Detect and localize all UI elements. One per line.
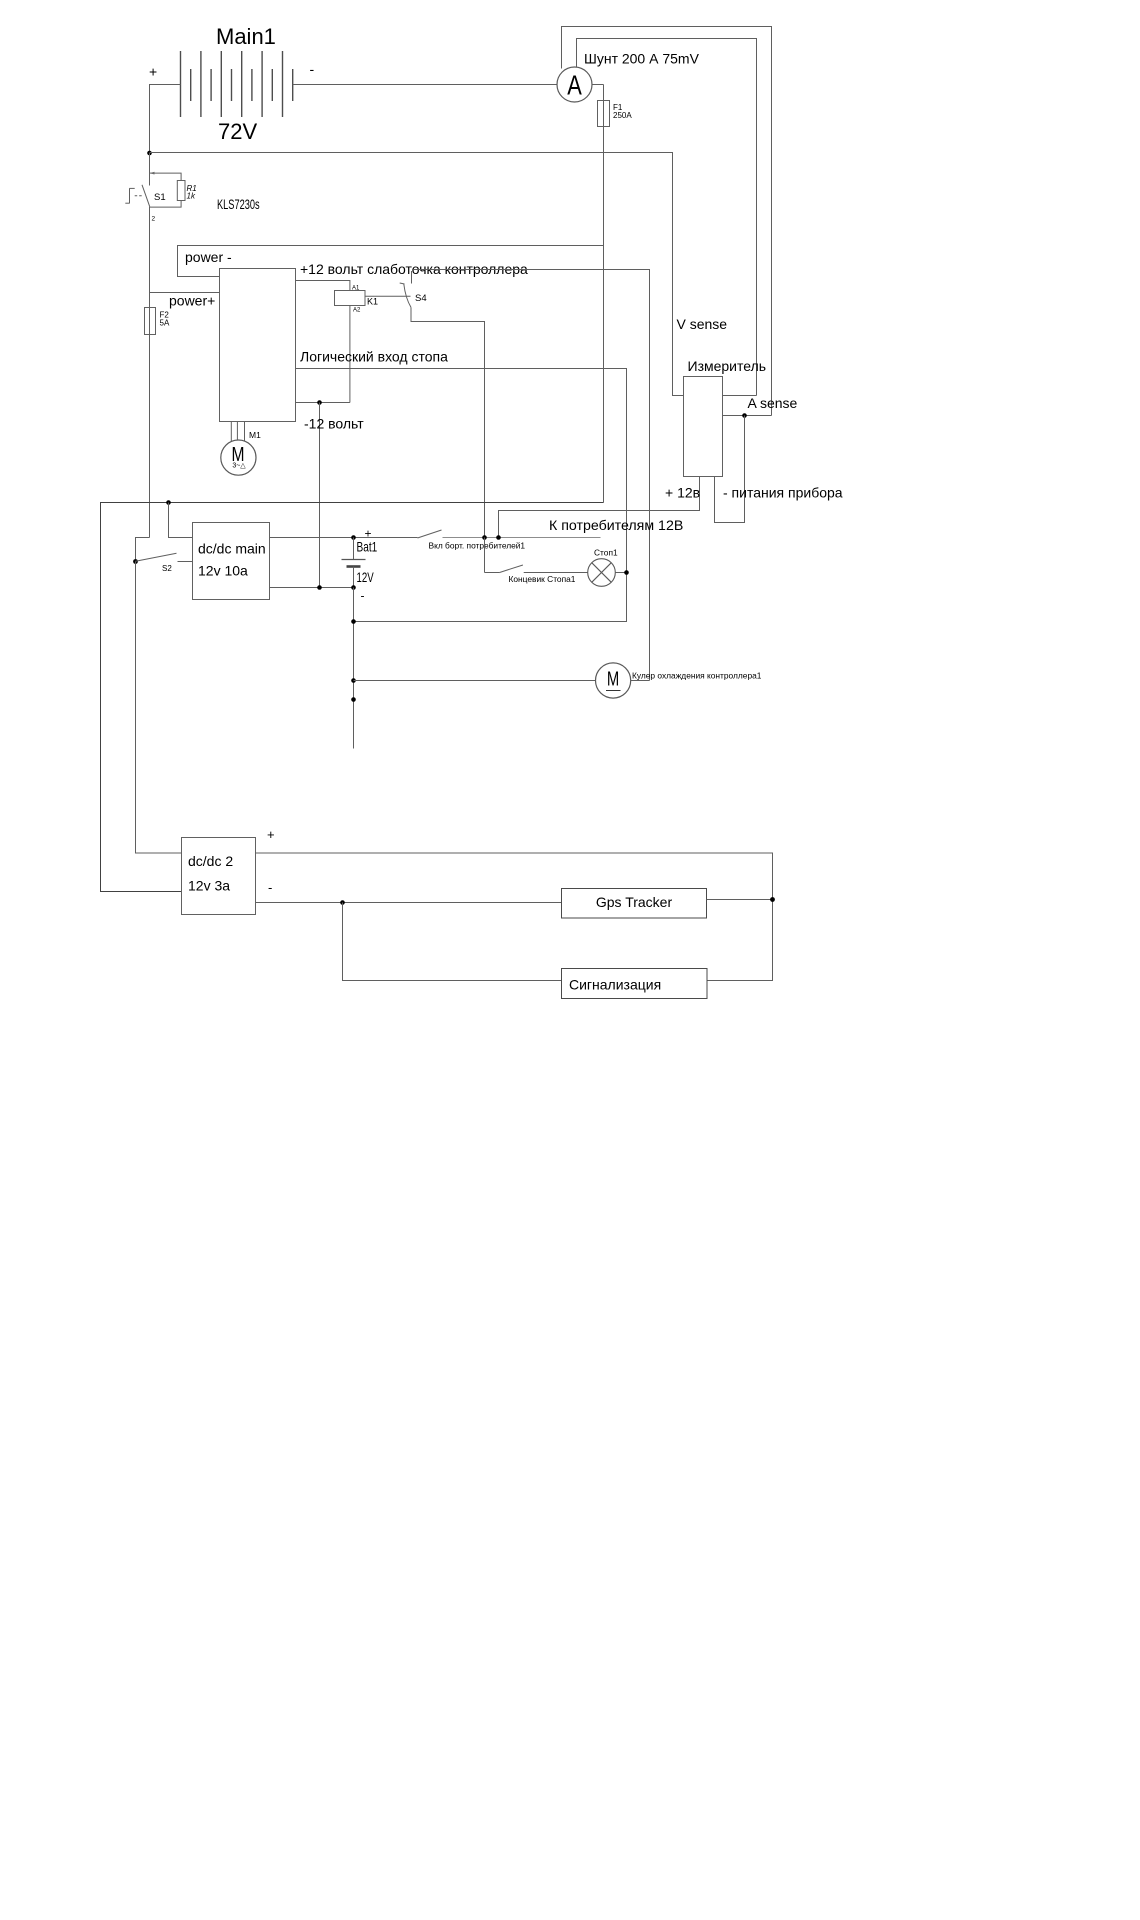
wire power minus xyxy=(178,246,604,277)
node Gps plus junction xyxy=(770,897,775,902)
wire meter V sense right xyxy=(723,395,757,397)
wire dc/dc main - output xyxy=(270,587,354,589)
wire lamp to logic line xyxy=(615,572,626,574)
wire cooler right lead xyxy=(631,680,650,682)
wire logic stop input xyxy=(296,369,627,622)
svg-text:Кулер охлаждения контроллера1: Кулер охлаждения контроллера1 xyxy=(632,671,762,681)
svg-text:12v 10a: 12v 10a xyxy=(198,563,248,579)
wire dc/dc main + output xyxy=(270,537,418,539)
wire meter A sense right xyxy=(723,415,772,417)
switch S2 xyxy=(136,553,193,561)
wire shunt sense right (V sense loop) xyxy=(577,39,757,396)
node S2 junction xyxy=(133,559,138,564)
svg-text:12v 3a: 12v 3a xyxy=(188,878,230,894)
svg-text:1k: 1k xyxy=(187,192,196,201)
svg-text:K1: K1 xyxy=(367,297,378,307)
svg-text:+: + xyxy=(149,64,157,80)
svg-text:Шунт 200 А 75mV: Шунт 200 А 75mV xyxy=(584,51,700,67)
svg-text:Концевик Стопа1: Концевик Стопа1 xyxy=(509,574,576,584)
wire cooler left lead xyxy=(354,680,596,682)
dc/dc 2 box xyxy=(182,838,256,915)
motor cooler xyxy=(596,663,631,698)
svg-text:Bat1: Bat1 xyxy=(357,539,378,555)
svg-text:-: - xyxy=(361,589,365,603)
svg-text:A sense: A sense xyxy=(748,395,798,411)
svg-text:-12 вольт: -12 вольт xyxy=(304,416,364,432)
svg-text:M1: M1 xyxy=(249,430,261,440)
svg-text:dc/dc 2: dc/dc 2 xyxy=(188,853,233,869)
svg-text:+ 12в: + 12в xyxy=(665,485,700,501)
lamp Стоп1 xyxy=(588,559,616,587)
wire shunt sense left (A sense loop) xyxy=(562,27,772,416)
wire -12 down to battery minus xyxy=(319,403,321,588)
wire power plus xyxy=(150,292,220,294)
fuse F2 xyxy=(145,308,156,335)
wire junction down to dc/dc main xyxy=(169,503,193,538)
svg-text:S1: S1 xyxy=(154,192,166,203)
wire F1 vertical down xyxy=(603,85,605,503)
switch S4 xyxy=(400,271,485,538)
wire battery plus lead xyxy=(150,85,181,154)
wire dc/dc 2 - output xyxy=(256,902,562,904)
node distribution junction xyxy=(166,500,171,505)
wire S1 line to S2 xyxy=(136,538,150,562)
svg-text:+: + xyxy=(267,827,275,842)
svg-text:S2: S2 xyxy=(162,564,172,573)
node Bat1 minus junction xyxy=(351,585,356,590)
svg-text:Main1: Main1 xyxy=(216,24,276,49)
wire minus supply of meter xyxy=(715,416,745,523)
svg-text:Логический вход стопа: Логический вход стопа xyxy=(300,349,448,365)
switch Вкл борт. потребителей1 xyxy=(418,530,601,538)
node alarm minus junction xyxy=(340,900,345,905)
wire K1 to S4 xyxy=(365,295,411,297)
svg-text:72V: 72V xyxy=(218,119,257,144)
relay coil K1 xyxy=(335,291,366,306)
battery Bat1 xyxy=(342,538,366,588)
node S4 line junction xyxy=(482,535,487,540)
wire relay A2 down to -12 line xyxy=(349,306,351,403)
svg-text:Стоп1: Стоп1 xyxy=(594,548,618,558)
svg-text:power -: power - xyxy=(185,249,232,265)
svg-text:Сигнализация: Сигнализация xyxy=(569,977,661,993)
switch S1 xyxy=(125,185,150,207)
svg-text:-: - xyxy=(268,880,272,895)
svg-text:250A: 250A xyxy=(613,111,632,120)
svg-text:A1: A1 xyxy=(352,286,360,292)
svg-text:dc/dc main: dc/dc main xyxy=(198,541,266,557)
svg-text:2: 2 xyxy=(152,216,156,223)
svg-text:Измеритель: Измеритель xyxy=(688,358,767,374)
svg-text:V sense: V sense xyxy=(677,316,728,332)
wire controller +12 to relay A1 xyxy=(296,281,350,291)
wire junction to switch S1 xyxy=(149,153,151,186)
node battery plus junction xyxy=(147,151,152,156)
motor M1 xyxy=(221,440,256,475)
wire S1 down through F2 xyxy=(149,207,151,538)
ammeter A1 (shunt) xyxy=(557,67,592,102)
svg-text:KLS7230s: KLS7230s xyxy=(217,196,260,213)
wire dc/dc 2 + output xyxy=(256,853,773,981)
svg-text:12V: 12V xyxy=(357,569,374,585)
battery Main1 xyxy=(181,51,293,117)
wire ammeter to fuse F1 xyxy=(592,84,604,86)
node spare junction xyxy=(351,697,356,702)
meter box Измеритель xyxy=(684,377,723,477)
node meter supply junction xyxy=(496,535,501,540)
node Bat1 plus junction xyxy=(351,535,356,540)
svg-text:5A: 5A xyxy=(160,319,170,328)
wire S2 node down to dc/dc 2 xyxy=(136,562,182,854)
controller box KLS xyxy=(220,269,296,422)
wire +12v supply of meter xyxy=(499,477,700,538)
svg-text:К потребителям 12В: К потребителям 12В xyxy=(549,518,683,534)
node A sense junction xyxy=(742,413,747,418)
svg-text:M: M xyxy=(607,667,619,690)
svg-text:- питания прибора: - питания прибора xyxy=(723,485,843,501)
svg-text:A2: A2 xyxy=(353,308,361,314)
svg-text:power+: power+ xyxy=(169,293,215,309)
svg-text:Gps Tracker: Gps Tracker xyxy=(596,894,673,910)
svg-text:Вкл борт. потребителей1: Вкл борт. потребителей1 xyxy=(429,541,526,551)
box Gps Tracker xyxy=(562,889,707,919)
wire +12 line to cooler xyxy=(412,270,650,681)
wire 72V distribution line xyxy=(101,503,604,892)
node -12 junction xyxy=(317,400,322,405)
resistor R1 xyxy=(150,172,186,207)
wire battery minus to ammeter xyxy=(293,84,557,86)
node -12 to battery junction xyxy=(317,585,322,590)
switch Концевик Стопа1 xyxy=(485,538,588,573)
fuse F1 xyxy=(598,101,610,127)
svg-text:-: - xyxy=(310,61,315,77)
dc/dc main box xyxy=(193,523,270,600)
wire V sense horizontal xyxy=(150,153,684,396)
wire alarm minus branch xyxy=(343,903,562,981)
wire Gps Tracker right lead xyxy=(707,899,773,901)
wire motor leads xyxy=(230,422,232,442)
node cooler return junction xyxy=(351,678,356,683)
svg-text:S4: S4 xyxy=(415,293,427,304)
node lamp junction xyxy=(624,570,629,575)
wire -12 volt output xyxy=(296,402,350,404)
svg-text:A: A xyxy=(567,70,582,101)
wire Bat1 minus down xyxy=(353,588,355,749)
node stop lamp return junction xyxy=(351,619,356,624)
svg-text:3~△: 3~△ xyxy=(232,463,246,470)
box Сигнализация xyxy=(562,969,708,999)
